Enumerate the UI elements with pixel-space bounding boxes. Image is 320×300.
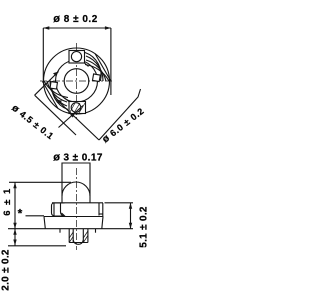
flange right edge (102, 217, 103, 229)
right pin edge (102, 203, 104, 217)
contact bump (73, 240, 83, 244)
step notch above bottom tab (65, 98, 69, 101)
left notch square (50, 82, 57, 89)
arrow 2.0 bottom (13, 240, 16, 246)
extension line 2.0 bottom (8, 245, 66, 247)
leader phi6.0 text line (99, 89, 141, 140)
arrow right phi8 (105, 26, 111, 29)
extension line left phi3 / bulb side left (61, 170, 63, 203)
cam fan arcs bottom-left (52, 81, 68, 110)
leader phi6.0 arrowhead (57, 100, 63, 104)
flange top (44, 216, 103, 218)
left bayonet pin (52, 203, 65, 216)
dimension line 6mm (14, 182, 16, 228)
leader phi4.5 text line (35, 95, 76, 135)
step notch below top tab (85, 63, 89, 67)
arrow 5.1 bottom (129, 223, 132, 229)
shoulder line (52, 202, 103, 204)
arrow left phi8 (43, 26, 49, 29)
arrow 6mm bottom (13, 223, 16, 229)
crossing stroke arrowhead (70, 112, 75, 117)
contact inner right (82, 229, 84, 243)
svg-text:ø 3 ± 0.17: ø 3 ± 0.17 (53, 151, 103, 163)
contact outer left (68, 229, 70, 243)
svg-text:5.1 ± 0.2: 5.1 ± 0.2 (139, 206, 150, 248)
bottom tab (69, 102, 86, 114)
outer circle phi8 (44, 48, 110, 114)
base stub right (95, 229, 97, 233)
centerline vertical top view (76, 43, 78, 120)
cam cut line top-right (95, 54, 111, 81)
extension line left phi8 (42, 28, 44, 80)
svg-text:ø 8 ± 0.2: ø 8 ± 0.2 (53, 13, 98, 25)
dimension line phi8 (43, 27, 111, 29)
crossing stroke near bottom tab (59, 106, 84, 128)
bulb dome (62, 182, 90, 196)
centerline horizontal top view (40, 80, 113, 82)
contact inner left (72, 229, 74, 243)
contact outer right (87, 229, 89, 243)
extension line 6mm top (9, 181, 71, 183)
leader phi4.5 arrowhead (53, 72, 59, 77)
svg-text:6 ± 1: 6 ± 1 (2, 187, 13, 216)
dimension bracket phi3 (62, 163, 90, 170)
dimension line 5.1 (130, 203, 132, 229)
contact slot hatch right (83, 231, 88, 243)
contact slot hatch left (69, 232, 73, 243)
extension line 5.1 top (105, 202, 134, 204)
contact bottom (69, 242, 88, 244)
svg-text:2.0 ± 0.2: 2.0 ± 0.2 (1, 249, 12, 291)
top tab circle (71, 52, 81, 62)
dimension line 2.0 (14, 229, 16, 246)
middle circle phi6 (56, 60, 98, 102)
svg-text:*: * (18, 207, 23, 221)
right notch square (92, 74, 100, 82)
right pin tick (99, 213, 103, 215)
flange left edge (44, 217, 45, 229)
left pin chamfer (62, 213, 66, 216)
left pin inner edge (61, 203, 65, 216)
arrow 2.0 top (13, 229, 16, 235)
extension line right phi8 (110, 28, 112, 95)
body right edge (98, 203, 100, 216)
bottom tab hatch (70, 103, 85, 113)
centerline vertical side view (76, 168, 78, 250)
top tab (69, 51, 85, 64)
arrow 6mm top (13, 182, 16, 188)
inner circle phi4.5 (64, 69, 89, 94)
arrow 5.1 top (129, 203, 132, 209)
asterisk leader line (26, 215, 45, 217)
leader phi6.0 arrow segment (57, 100, 100, 141)
base stub left (59, 229, 61, 233)
body left edge (53, 203, 55, 217)
extension line right phi3 / bulb side right (89, 170, 91, 203)
bottom tab circle (71, 103, 81, 113)
base line (8, 228, 133, 230)
leader phi4.5 arrow segment (35, 72, 59, 96)
cam cut line bottom-left (43, 82, 59, 109)
cam fan arcs top-right (85, 53, 101, 82)
